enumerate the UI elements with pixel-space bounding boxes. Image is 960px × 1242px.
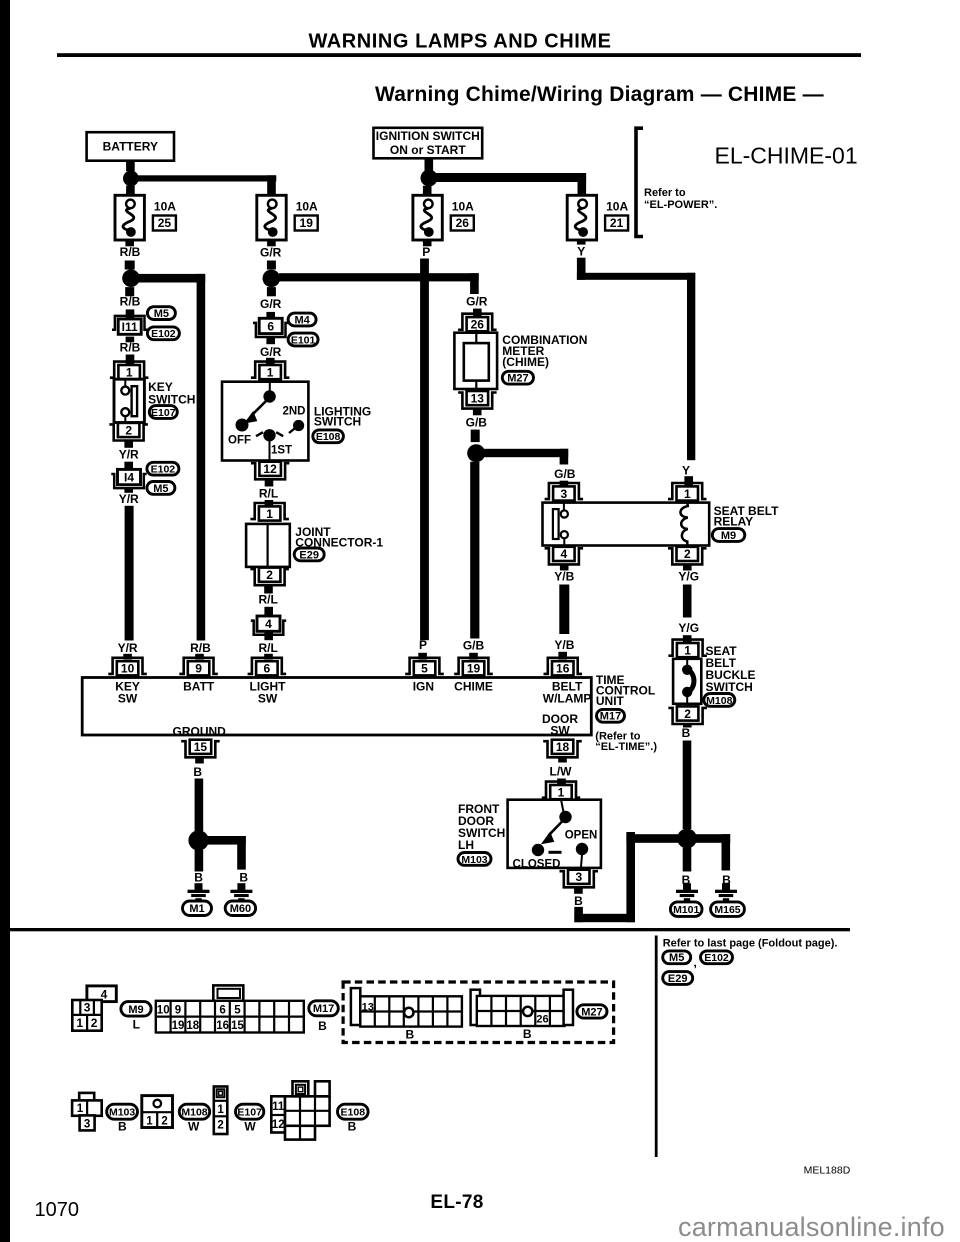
seat belt relay label bbox=[714, 504, 780, 528]
svg-text:13: 13 bbox=[471, 391, 485, 405]
lighting switch input line bbox=[269, 379, 271, 392]
wire stub into connector 4 bbox=[264, 607, 273, 616]
svg-text:CHIME: CHIME bbox=[454, 679, 493, 693]
page title bbox=[308, 31, 611, 53]
svg-text:10: 10 bbox=[157, 1004, 170, 1016]
svg-text:Y/G: Y/G bbox=[678, 621, 699, 635]
face E108 colour B bbox=[348, 1120, 357, 1134]
lighting switch label bbox=[314, 404, 371, 428]
joint connector box bbox=[246, 524, 290, 567]
combination meter pin 13 bbox=[458, 391, 497, 409]
svg-text:G/R: G/R bbox=[260, 297, 282, 311]
svg-text:M17: M17 bbox=[600, 711, 621, 723]
node B junction left bbox=[188, 830, 208, 850]
wire stub into I4 bbox=[124, 462, 133, 470]
comma bbox=[694, 956, 697, 970]
wire G/R junction to combination meter (right and down) bbox=[279, 273, 479, 294]
svg-text:Y/B: Y/B bbox=[554, 569, 574, 583]
wire label R/B below connector I11 bbox=[120, 340, 141, 354]
TCU label IGN bbox=[413, 679, 434, 693]
svg-text:4: 4 bbox=[561, 547, 568, 561]
TCU pin 10 bbox=[108, 658, 147, 676]
combination meter connect lines bbox=[475, 330, 477, 391]
svg-text:B: B bbox=[348, 1120, 357, 1134]
face M27-B colour B bbox=[523, 1027, 532, 1041]
svg-text:LH: LH bbox=[458, 838, 474, 852]
connector face M103 bbox=[72, 1093, 102, 1131]
svg-text:R/L: R/L bbox=[259, 593, 278, 607]
svg-text:19: 19 bbox=[300, 216, 314, 230]
svg-text:Warning Chime/Wiring Diagram —: Warning Chime/Wiring Diagram — CHIME — bbox=[375, 83, 824, 106]
connector id M4 bbox=[288, 313, 316, 326]
svg-text:6: 6 bbox=[264, 662, 271, 676]
connector id E102 bbox=[147, 462, 179, 475]
TCU label BELT W/LAMP bbox=[543, 679, 592, 705]
svg-text:OPEN: OPEN bbox=[565, 830, 598, 842]
svg-text:3: 3 bbox=[84, 1001, 91, 1015]
svg-text:10A: 10A bbox=[452, 200, 474, 214]
door switch wiper arrow bbox=[542, 821, 563, 844]
wire stub into door switch pin 1 bbox=[557, 779, 566, 786]
wire label L/W below TCU bbox=[550, 765, 573, 779]
wire label Y above relay bbox=[682, 463, 690, 477]
wire B buckle to junction bbox=[683, 741, 692, 830]
node G/B junction bbox=[467, 444, 485, 462]
svg-text:W/LAMP: W/LAMP bbox=[543, 691, 592, 705]
wire label B below pin 15 bbox=[193, 765, 202, 779]
TCU label CHIME bbox=[454, 679, 493, 693]
figure number MEL188D bbox=[804, 1164, 851, 1176]
svg-text:E102: E102 bbox=[151, 328, 176, 340]
wire label B above M165 bbox=[722, 873, 731, 887]
foldout note bbox=[663, 938, 838, 950]
svg-text:G/B: G/B bbox=[466, 415, 488, 429]
svg-text:E108: E108 bbox=[341, 1107, 366, 1119]
wire stub into key switch bbox=[126, 355, 135, 366]
svg-text:G/B: G/B bbox=[554, 467, 576, 481]
wire label G/B above TCU pin 19 bbox=[463, 638, 485, 652]
node G/R junction bbox=[263, 270, 281, 288]
wire Y/B dash long bbox=[559, 585, 569, 635]
wire stub below fuse 26 bbox=[423, 240, 432, 247]
svg-text:SW: SW bbox=[258, 691, 278, 705]
svg-text:B: B bbox=[194, 871, 203, 885]
svg-text:26: 26 bbox=[456, 216, 470, 230]
door switch common contact bbox=[559, 811, 571, 823]
svg-text:6: 6 bbox=[219, 1004, 225, 1016]
ground M165 bbox=[715, 883, 737, 901]
key switch contact circles bbox=[121, 387, 129, 417]
seat belt buckle switch pin 1 bbox=[668, 640, 707, 658]
svg-text:E107: E107 bbox=[237, 1107, 262, 1119]
title rule bbox=[57, 53, 861, 57]
wire label Y/B above TCU bbox=[554, 638, 574, 652]
svg-text:G/R: G/R bbox=[466, 294, 488, 308]
seat belt relay contact circles bbox=[561, 501, 568, 547]
wire label R/B above TCU pin 9 bbox=[190, 641, 211, 655]
wire stub into TCU pin 19 bbox=[469, 653, 478, 660]
svg-text:M5: M5 bbox=[154, 308, 169, 320]
wire B junction to ground M101 bbox=[683, 848, 692, 872]
fuse 19 bbox=[257, 195, 286, 240]
svg-text:1: 1 bbox=[217, 1104, 224, 1116]
svg-text:10: 10 bbox=[121, 662, 135, 676]
TCU pin 9 bbox=[179, 658, 218, 676]
wire Y/G dash bbox=[683, 585, 692, 618]
joint connector pin 2 bbox=[250, 568, 289, 586]
lighting switch pin 12 bbox=[251, 462, 290, 480]
diagram subtitle bbox=[375, 83, 824, 106]
wire stub below connector 4 bbox=[264, 632, 273, 641]
svg-text:2: 2 bbox=[125, 423, 132, 437]
node ignition junction bbox=[421, 170, 438, 187]
svg-text:P: P bbox=[422, 245, 430, 259]
svg-text:W: W bbox=[244, 1120, 256, 1134]
connector id E107 face bbox=[236, 1104, 264, 1119]
fuse 26 rating 10A and number bbox=[451, 200, 474, 231]
lighting switch box bbox=[222, 382, 308, 461]
TCU pin 5 bbox=[405, 658, 444, 676]
connector id M108 bbox=[704, 694, 735, 707]
connector face M17 tab bbox=[213, 985, 243, 1000]
svg-text:IGN: IGN bbox=[413, 679, 434, 693]
TCU label BATT bbox=[183, 679, 215, 693]
face M17 pin numbers bbox=[157, 1004, 245, 1032]
connector id M5 note bbox=[663, 951, 691, 964]
fuse 26 bbox=[413, 195, 442, 240]
svg-text:1: 1 bbox=[76, 1016, 83, 1030]
node battery junction bbox=[123, 171, 139, 187]
svg-text:9: 9 bbox=[195, 662, 202, 676]
face M9 colour L bbox=[133, 1018, 140, 1032]
wire stub below TCU pin 18 bbox=[558, 757, 567, 762]
svg-text:(CHIME): (CHIME) bbox=[502, 355, 549, 369]
wire stub into connector 6 bbox=[266, 312, 275, 318]
connector id M103 face bbox=[107, 1104, 138, 1119]
svg-text:Y/R: Y/R bbox=[119, 492, 139, 506]
svg-text:1: 1 bbox=[266, 507, 273, 521]
connector face M27-A tab bbox=[351, 988, 360, 1025]
connector id E107 bbox=[149, 406, 177, 419]
wire R/B junction to BATT feed (right and down) bbox=[138, 274, 205, 641]
svg-text:3: 3 bbox=[575, 870, 582, 884]
svg-text:18: 18 bbox=[556, 740, 570, 754]
svg-text:L/W: L/W bbox=[550, 765, 573, 779]
wire branch to ground M60 bbox=[205, 836, 246, 870]
door switch CLOSED contact bbox=[532, 844, 544, 856]
notes divider line bbox=[655, 936, 658, 1158]
wire label Y/G above buckle switch bbox=[678, 621, 699, 635]
door switch position labels bbox=[513, 830, 598, 871]
seat belt relay pin 3 bbox=[545, 483, 584, 501]
EL-POWER reference text bbox=[644, 187, 717, 211]
ground M60 bbox=[230, 883, 252, 901]
svg-text:Y/R: Y/R bbox=[119, 447, 139, 461]
svg-text:2: 2 bbox=[161, 1115, 167, 1127]
svg-text:B: B bbox=[682, 726, 691, 740]
wire stub into lighting switch bbox=[266, 358, 275, 365]
connector 4 bbox=[251, 616, 286, 635]
face M103 colour B bbox=[118, 1120, 127, 1134]
svg-text:12: 12 bbox=[272, 1119, 285, 1131]
connector id E29 bbox=[294, 548, 324, 561]
lighting switch wiper arrow bbox=[245, 400, 268, 423]
wire label B above M101 bbox=[682, 873, 691, 887]
svg-text:E101: E101 bbox=[291, 334, 316, 346]
seat belt relay coil bbox=[680, 501, 687, 547]
svg-text:Y/B: Y/B bbox=[554, 638, 574, 652]
wire stub below TCU pin 15 bbox=[195, 757, 204, 763]
svg-text:MEL188D: MEL188D bbox=[804, 1164, 851, 1176]
connector id M27 bbox=[502, 371, 533, 384]
wire stub below fuse 21 bbox=[577, 240, 586, 245]
svg-text:M108: M108 bbox=[706, 695, 732, 707]
svg-text:1: 1 bbox=[684, 643, 691, 657]
wire label B above M1 bbox=[194, 871, 203, 885]
svg-text:B: B bbox=[523, 1027, 532, 1041]
connector id E102 bbox=[147, 327, 179, 340]
connector face M27-B left tab bbox=[471, 990, 480, 1025]
svg-text:18: 18 bbox=[186, 1020, 199, 1032]
seat belt buckle switch box bbox=[673, 659, 701, 704]
svg-text:R/L: R/L bbox=[259, 641, 278, 655]
svg-text:Refer to: Refer to bbox=[644, 187, 686, 199]
svg-text:B: B bbox=[239, 871, 248, 885]
seat belt relay pin 1 bbox=[668, 483, 707, 501]
svg-text:SWITCH: SWITCH bbox=[314, 415, 361, 429]
svg-text:M9: M9 bbox=[721, 530, 736, 542]
svg-text:G/R: G/R bbox=[260, 345, 282, 359]
wire stub into TCU pin 6 bbox=[264, 654, 273, 660]
key switch pin 1 bbox=[110, 362, 148, 380]
key switch label bbox=[148, 380, 195, 407]
connector face M27-B right tab bbox=[564, 990, 573, 1025]
wire R/B dash bbox=[125, 261, 135, 270]
svg-text:1: 1 bbox=[267, 365, 274, 379]
svg-text:M4: M4 bbox=[294, 314, 310, 326]
front door switch pin 3 bbox=[560, 870, 599, 888]
wire stub below lighting switch bbox=[265, 480, 274, 487]
svg-text:OFF: OFF bbox=[228, 435, 251, 447]
svg-text:6: 6 bbox=[267, 319, 274, 333]
wire stub below meter bbox=[473, 408, 482, 415]
connector face M27-A grid bbox=[360, 996, 462, 1026]
wire label R/L above connector 4 bbox=[259, 593, 278, 607]
svg-text:11: 11 bbox=[272, 1101, 285, 1113]
wire label Y/R below key switch bbox=[119, 447, 139, 461]
svg-text:UNIT: UNIT bbox=[596, 694, 625, 708]
connector id M17 bbox=[597, 709, 625, 722]
TCU pin 16 bbox=[544, 658, 583, 676]
connector id E108 face bbox=[338, 1104, 369, 1119]
connector id M5 bbox=[147, 482, 175, 495]
key switch box bbox=[114, 379, 144, 422]
svg-text:R/B: R/B bbox=[190, 641, 211, 655]
svg-text:E29: E29 bbox=[299, 549, 319, 561]
wire label Y/G below relay bbox=[678, 569, 699, 583]
svg-text:R/B: R/B bbox=[120, 340, 141, 354]
svg-text:BATT: BATT bbox=[183, 679, 215, 693]
ground M101 bbox=[676, 883, 698, 901]
svg-text:R/L: R/L bbox=[259, 486, 278, 500]
TCU label LIGHT SW bbox=[250, 679, 287, 705]
wire stub below key switch bbox=[124, 441, 133, 448]
wire stub into meter pin 26 bbox=[473, 309, 482, 318]
wire label G/B below meter bbox=[466, 415, 488, 429]
connector face M27-B grid bbox=[477, 996, 565, 1026]
svg-text:B: B bbox=[193, 765, 202, 779]
wire stub into TCU pin 9 bbox=[195, 654, 204, 660]
svg-text:WARNING LAMPS AND CHIME: WARNING LAMPS AND CHIME bbox=[308, 31, 611, 53]
svg-text:M165: M165 bbox=[714, 904, 740, 916]
svg-text:CLOSED: CLOSED bbox=[513, 858, 561, 870]
front door switch box bbox=[508, 800, 601, 868]
connector 6 bbox=[253, 318, 288, 337]
wire ignition junction down bbox=[423, 186, 432, 195]
svg-text:“EL-POWER”.: “EL-POWER”. bbox=[644, 199, 717, 211]
wire label B above M60 bbox=[239, 871, 248, 885]
key switch blade bar bbox=[132, 386, 138, 416]
svg-text:3: 3 bbox=[84, 1118, 90, 1130]
svg-text:G/R: G/R bbox=[260, 245, 282, 259]
fuse 25 rating 10A and number bbox=[153, 200, 176, 231]
lighting switch 2ND contact bbox=[289, 420, 304, 433]
svg-text:26: 26 bbox=[536, 1014, 548, 1026]
connector face M9 cavity 4 bbox=[87, 986, 116, 1002]
svg-text:1ST: 1ST bbox=[271, 444, 292, 456]
wire G/B branch to relay pin 3 (right and down) bbox=[484, 449, 568, 465]
buckle switch contacts bbox=[682, 659, 694, 705]
front door switch label bbox=[458, 802, 505, 852]
svg-text:1070: 1070 bbox=[35, 1199, 80, 1221]
svg-text:M103: M103 bbox=[109, 1107, 135, 1119]
seat belt buckle switch label bbox=[706, 644, 756, 694]
svg-text:R/B: R/B bbox=[120, 294, 141, 308]
svg-text:M1: M1 bbox=[189, 903, 204, 915]
lighting switch common contact bbox=[263, 390, 275, 402]
wire G/R dash below junction bbox=[267, 287, 276, 296]
node B junction right bbox=[677, 829, 697, 849]
svg-text:10A: 10A bbox=[606, 200, 628, 214]
connector id M103 bbox=[458, 853, 491, 866]
TCU pin 6 bbox=[248, 658, 287, 676]
wire label R/L above TCU pin 6 bbox=[259, 641, 278, 655]
connector I4 bbox=[111, 469, 146, 488]
svg-text:RELAY: RELAY bbox=[714, 514, 754, 528]
connector id M60 bbox=[225, 901, 255, 916]
wire label P under fuse 26 bbox=[422, 245, 430, 259]
svg-text:M60: M60 bbox=[230, 903, 251, 915]
page left edge black bar bbox=[0, 0, 10, 1242]
lighting switch position labels bbox=[228, 406, 306, 457]
wire label Y/R above long run bbox=[119, 492, 139, 506]
wire stub below connector I11 bbox=[126, 337, 135, 343]
connector id M1 bbox=[183, 901, 212, 916]
svg-text:Y/G: Y/G bbox=[678, 569, 699, 583]
svg-text:E102: E102 bbox=[151, 464, 176, 476]
seat belt relay contact bar bbox=[553, 509, 559, 539]
wire stub below door switch bbox=[574, 887, 583, 894]
wire branch to ground M165 bbox=[695, 834, 730, 870]
wire label R/B under fuse 25 bbox=[120, 245, 141, 259]
wire label Y/B below relay bbox=[554, 569, 574, 583]
svg-text:E102: E102 bbox=[704, 952, 729, 964]
wire label R/B above connector I11 bbox=[120, 294, 141, 308]
svg-text:B: B bbox=[405, 1028, 414, 1042]
lighting switch output line bbox=[269, 442, 271, 463]
lighting switch OFF contact bbox=[236, 419, 249, 432]
fuse 21 rating 10A and number bbox=[605, 200, 628, 231]
wire P long run to TCU bbox=[420, 259, 429, 641]
wire label G/B above relay pin 3 bbox=[554, 467, 576, 481]
door switch input line bbox=[561, 800, 564, 813]
wire label G/R above connector 6 bbox=[260, 297, 282, 311]
wire label P above TCU pin 5 bbox=[419, 638, 427, 652]
svg-text:GROUND: GROUND bbox=[173, 724, 227, 738]
wire label Y/R above TCU pin 10 bbox=[118, 641, 138, 655]
wire battery stub bbox=[126, 161, 135, 172]
svg-text:E108: E108 bbox=[316, 431, 341, 443]
wire Y from fuse right and down bbox=[577, 258, 695, 460]
wire stub into TCU pin 10 bbox=[123, 654, 132, 660]
connector id E101 bbox=[288, 333, 318, 346]
svg-text:SW: SW bbox=[118, 691, 138, 705]
door switch OPEN contact bbox=[576, 843, 588, 869]
face E107 colour W bbox=[244, 1120, 256, 1134]
svg-text:2: 2 bbox=[684, 547, 691, 561]
svg-text:Y: Y bbox=[682, 463, 690, 477]
svg-text:2: 2 bbox=[91, 1016, 98, 1030]
wire R/B dash below junction bbox=[125, 287, 134, 296]
combination meter pin 26 bbox=[458, 314, 497, 332]
svg-text:IGNITION SWITCH: IGNITION SWITCH bbox=[376, 129, 480, 143]
wire G/B down to TCU CHIME bbox=[470, 462, 479, 639]
wire label G/R above lighting switch bbox=[260, 345, 282, 359]
svg-text:SW: SW bbox=[550, 723, 570, 737]
TCU name label bbox=[596, 673, 655, 708]
TCU label GROUND bbox=[173, 724, 227, 738]
combination meter connectors dashed box bbox=[343, 982, 613, 1043]
combination meter inner box bbox=[464, 343, 489, 381]
svg-text:“EL-TIME”.): “EL-TIME”.) bbox=[595, 741, 657, 753]
TCU pin 19 bbox=[454, 658, 493, 676]
wire stub into TCU pin 16 bbox=[558, 652, 567, 660]
svg-text:13: 13 bbox=[362, 1002, 374, 1014]
wire label R/L above joint connector bbox=[259, 486, 278, 500]
svg-text:L: L bbox=[133, 1018, 140, 1032]
page number EL-78 bbox=[430, 1192, 483, 1213]
wire stub below connector I4 bbox=[124, 487, 133, 493]
svg-text:15: 15 bbox=[194, 740, 208, 754]
key switch contact lines bbox=[124, 379, 126, 422]
connector id M5 bbox=[147, 307, 175, 320]
wire ignition junction to fuse 21 bbox=[436, 173, 586, 195]
svg-text:2: 2 bbox=[684, 707, 691, 721]
connector face E108 bbox=[271, 1081, 329, 1139]
wire stub below fuse 25 bbox=[125, 240, 134, 247]
svg-text:M27: M27 bbox=[507, 373, 528, 385]
svg-text:12: 12 bbox=[263, 462, 277, 476]
bottom separator rule bbox=[8, 928, 850, 931]
TCU label DOOR SW bbox=[542, 712, 578, 738]
svg-text:B: B bbox=[118, 1120, 127, 1134]
svg-text:B: B bbox=[318, 1019, 327, 1033]
fuse 21 bbox=[567, 195, 596, 240]
wire G/B dash bbox=[471, 430, 480, 443]
svg-text:ON or START: ON or START bbox=[390, 143, 466, 157]
svg-text:26: 26 bbox=[471, 318, 485, 332]
svg-text:Y: Y bbox=[577, 245, 585, 259]
